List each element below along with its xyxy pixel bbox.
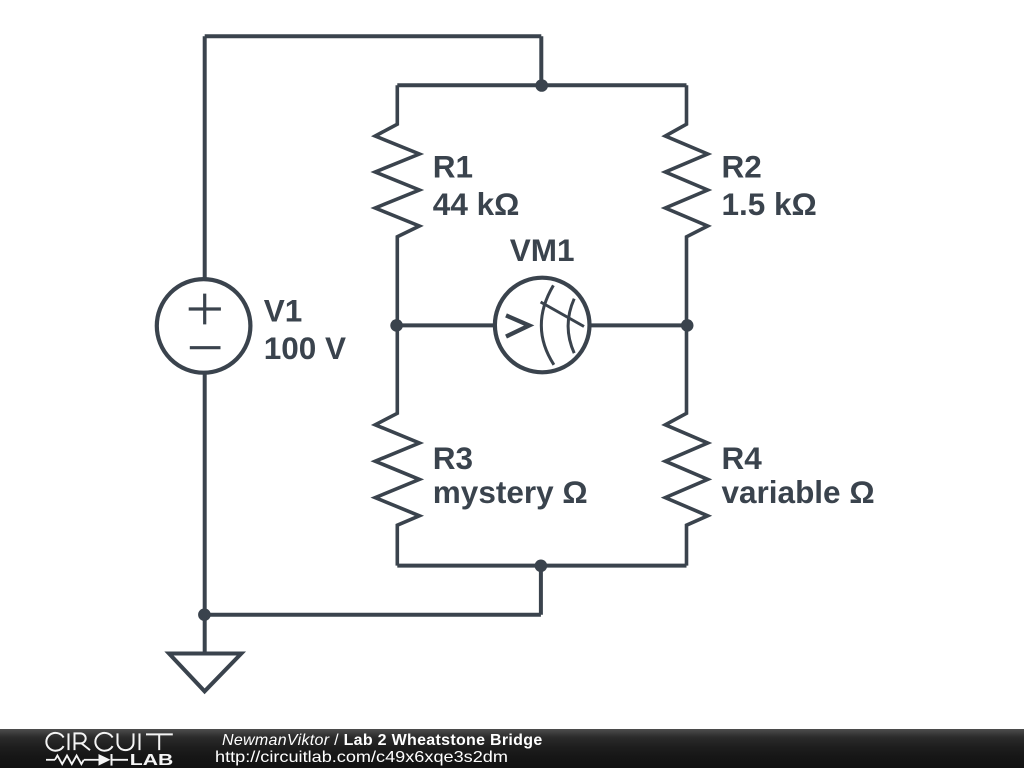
wire vertical from bottom bridge node down to ground rail <box>539 566 543 615</box>
svg-text:variable Ω: variable Ω <box>722 474 875 510</box>
node junction dot at ground tap <box>198 608 211 621</box>
resistor R3 <box>375 325 419 565</box>
node A junction dot middle left <box>390 319 403 332</box>
resistor R2 <box>665 85 707 325</box>
wire middle rail left from node A to voltmeter <box>397 323 494 327</box>
wire top horizontal from V1 column to top node column <box>205 34 542 38</box>
node junction dot bottom bridge <box>535 560 548 573</box>
svg-text:mystery Ω: mystery Ω <box>433 474 588 510</box>
V1 plus sign <box>189 294 221 325</box>
logo letter I <box>68 733 70 750</box>
node B junction dot middle right <box>681 319 694 332</box>
svg-text:V1: V1 <box>264 292 303 328</box>
voltage source V1 body circle <box>157 279 251 373</box>
svg-text:R1: R1 <box>433 149 473 185</box>
logo resistor zigzag <box>55 756 84 765</box>
footer url line <box>215 750 508 766</box>
logo letter I <box>139 733 141 750</box>
logo letter C <box>95 733 112 751</box>
wire ground stub <box>203 615 207 654</box>
wire middle rail right from voltmeter to node B <box>590 323 687 327</box>
voltmeter VM1 chevron V pointing right <box>506 315 529 336</box>
wire top bridge rail <box>397 83 686 87</box>
V1 minus sign <box>190 346 221 349</box>
resistor R4 <box>665 325 707 565</box>
logo wire mid <box>84 759 99 761</box>
CircuitLab logo <box>0 729 200 768</box>
node junction dot top bridge <box>535 79 548 92</box>
wire vertical from top corner down to top bridge node <box>539 36 543 85</box>
logo letter T <box>146 734 173 750</box>
svg-text:1.5 kΩ: 1.5 kΩ <box>722 186 817 222</box>
footer bar <box>0 729 1024 768</box>
logo letter U <box>118 733 134 750</box>
svg-text:R2: R2 <box>722 149 762 185</box>
wire bottom bridge rail <box>397 564 686 568</box>
logo diode cathode bar <box>111 754 113 766</box>
voltmeter VM1 needle <box>541 302 584 327</box>
wire V1 negative lead down to ground rail <box>203 372 207 615</box>
svg-text:100 V: 100 V <box>264 330 346 366</box>
voltmeter VM1 gauge arc outer <box>541 285 554 364</box>
svg-text:R4: R4 <box>722 440 763 476</box>
logo wire right <box>112 759 129 761</box>
svg-text:VM1: VM1 <box>510 232 575 268</box>
voltmeter VM1 gauge arc inner <box>568 299 574 353</box>
logo wire left <box>46 759 55 761</box>
logo letter C <box>46 733 63 751</box>
logo diode triangle <box>99 754 111 766</box>
resistor R1 <box>375 85 419 325</box>
ground symbol triangle <box>169 654 241 692</box>
voltmeter VM1 body circle <box>495 278 590 373</box>
logo letter R <box>75 733 91 750</box>
wire ground rail horizontal <box>205 613 541 617</box>
svg-text:44 kΩ: 44 kΩ <box>433 186 520 222</box>
svg-text:R3: R3 <box>433 440 473 476</box>
footer author/title line <box>222 733 543 749</box>
wire left vertical from top corner down to V1 positive terminal <box>203 36 207 280</box>
svg-text:LAB: LAB <box>130 752 174 768</box>
